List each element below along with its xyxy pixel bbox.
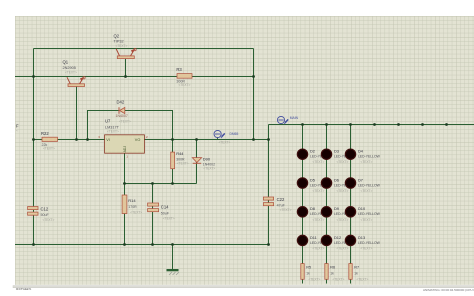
svg-text:TIP32: TIP32 xyxy=(114,40,124,44)
svg-text:<TEXT>: <TEXT> xyxy=(313,246,325,250)
svg-text:VI: VI xyxy=(106,138,110,142)
svg-text:<TEXT>: <TEXT> xyxy=(107,130,119,134)
svg-text:C12: C12 xyxy=(41,207,49,212)
svg-text:LED-YELLOW: LED-YELLOW xyxy=(358,183,381,187)
svg-text:ROOT SHEET 1: ROOT SHEET 1 xyxy=(16,287,32,291)
svg-text:DM65: DM65 xyxy=(230,132,239,136)
svg-text:D4: D4 xyxy=(358,149,364,154)
svg-text:<TEXT>: <TEXT> xyxy=(361,160,373,164)
svg-text:2N2905: 2N2905 xyxy=(63,66,76,70)
svg-text:1k: 1k xyxy=(354,272,358,276)
svg-text:VO: VO xyxy=(135,138,141,142)
svg-text:<TEXT>: <TEXT> xyxy=(337,189,349,193)
svg-text:D5: D5 xyxy=(310,177,315,182)
svg-text:D9: D9 xyxy=(334,206,339,211)
svg-text:Q2: Q2 xyxy=(114,34,120,39)
svg-text:50uF: 50uF xyxy=(161,211,170,215)
svg-text:<TEXT>: <TEXT> xyxy=(177,161,189,165)
svg-text:<TEXT>: <TEXT> xyxy=(116,44,128,48)
svg-text:R44: R44 xyxy=(176,151,184,156)
svg-text:<TEXT>: <TEXT> xyxy=(313,218,325,222)
svg-text:<TEXT>: <TEXT> xyxy=(357,278,369,282)
svg-text:<TEXT>: <TEXT> xyxy=(43,146,55,150)
svg-text:LED-YELLOW: LED-YELLOW xyxy=(358,155,381,159)
svg-text:LED-YELLOW: LED-YELLOW xyxy=(358,241,381,245)
svg-text:<TEXT>: <TEXT> xyxy=(337,218,349,222)
svg-text:<TEXT>: <TEXT> xyxy=(313,189,325,193)
svg-text:R14: R14 xyxy=(128,198,136,203)
svg-text:R7: R7 xyxy=(354,266,359,270)
svg-text:D7: D7 xyxy=(358,177,363,182)
svg-text:50uF: 50uF xyxy=(41,213,50,217)
svg-text:<TEXT>: <TEXT> xyxy=(337,160,349,164)
svg-text:Q1: Q1 xyxy=(63,59,69,64)
svg-text:<TEXT>: <TEXT> xyxy=(280,208,292,212)
svg-text:D8: D8 xyxy=(310,206,315,211)
svg-text:D13: D13 xyxy=(358,235,365,240)
svg-text:<TEXT>: <TEXT> xyxy=(219,141,231,145)
svg-text:170R: 170R xyxy=(128,205,137,209)
svg-text:D90: D90 xyxy=(203,157,211,162)
svg-text:ADJ: ADJ xyxy=(123,146,127,153)
svg-text:D3: D3 xyxy=(334,149,339,154)
svg-text:<TEXT>: <TEXT> xyxy=(179,83,191,87)
svg-text:1N4007: 1N4007 xyxy=(116,114,128,118)
svg-text:<TEXT>: <TEXT> xyxy=(43,218,55,222)
svg-text:<TEXT>: <TEXT> xyxy=(333,278,345,282)
svg-text:D10: D10 xyxy=(358,206,366,211)
svg-text:D6: D6 xyxy=(334,177,339,182)
svg-text:D11: D11 xyxy=(310,235,317,240)
svg-text:D12: D12 xyxy=(334,235,341,240)
svg-text:<: < xyxy=(16,129,18,133)
svg-text:<TEXT>: <TEXT> xyxy=(203,167,215,171)
svg-text:LED-YELLOW: LED-YELLOW xyxy=(358,212,381,216)
svg-text:<TEXT>: <TEXT> xyxy=(361,246,373,250)
svg-text:R6: R6 xyxy=(330,266,335,270)
svg-text:1k: 1k xyxy=(330,272,334,276)
svg-text:<TEXT>: <TEXT> xyxy=(119,119,131,123)
svg-text:C14: C14 xyxy=(161,204,169,209)
svg-text:<TEXT>: <TEXT> xyxy=(313,160,325,164)
svg-text:MAIN: MAIN xyxy=(290,116,299,120)
svg-text:D2: D2 xyxy=(310,149,315,154)
svg-text:<TEXT>: <TEXT> xyxy=(65,70,77,74)
svg-text:R22: R22 xyxy=(41,131,49,136)
svg-text:1k: 1k xyxy=(306,272,310,276)
svg-text:<TEXT>: <TEXT> xyxy=(361,189,373,193)
svg-text:<TEXT>: <TEXT> xyxy=(130,210,142,214)
svg-text:<TEXT>: <TEXT> xyxy=(163,216,175,220)
svg-text:C22: C22 xyxy=(277,197,285,202)
svg-text:R5: R5 xyxy=(306,266,311,270)
svg-text:D42: D42 xyxy=(117,99,125,104)
svg-text:ANIMATING: 00:00:04.500000 (CP: ANIMATING: 00:00:04.500000 (CPU load 3%) xyxy=(423,288,474,292)
svg-text:47uF: 47uF xyxy=(277,204,286,208)
svg-text:<TEXT>: <TEXT> xyxy=(361,218,373,222)
svg-text:U7: U7 xyxy=(105,119,111,124)
svg-text:<TEXT>: <TEXT> xyxy=(309,278,321,282)
svg-text:R3: R3 xyxy=(176,67,182,72)
svg-text:<TEXT>: <TEXT> xyxy=(337,246,349,250)
